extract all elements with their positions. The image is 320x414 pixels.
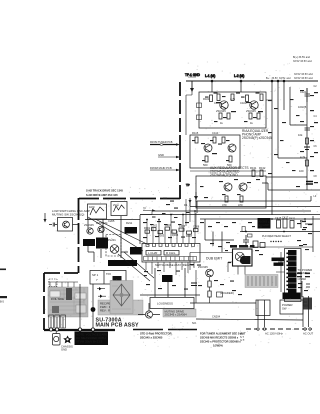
pointer diagonal lower	[118, 252, 154, 281]
svg-text:2SC945 A(TP)GND: 2SC945 A(TP)GND	[210, 173, 238, 177]
svg-text:4.7k: 4.7k	[300, 155, 306, 159]
transistor Q3	[204, 144, 212, 152]
connector CN201 black body	[283, 250, 301, 299]
svg-text:33.5V 33.5V and: 33.5V 33.5V and	[294, 77, 313, 80]
svg-text:DUB EMIT: DUB EMIT	[206, 257, 222, 261]
AC line dashed	[246, 328, 312, 330]
svg-text:CN202: CN202	[298, 277, 307, 281]
svg-text:VTVM 20k/V B+33.5: VTVM 20k/V B+33.5	[76, 340, 103, 344]
svg-text:C110: C110	[212, 131, 219, 135]
wire horizontal y=219 signal line	[85, 219, 140, 221]
wire y=231.5	[240, 231, 320, 233]
wire: boundary vertical x=180	[179, 82, 181, 199]
resistor R21 on rail	[306, 138, 309, 144]
IC1 terminal strip	[144, 257, 197, 261]
small box part X3	[217, 292, 223, 297]
transistor Q1	[220, 101, 228, 109]
resistor R16	[260, 170, 263, 177]
transistor Q8	[87, 228, 93, 234]
wire verticals feeding mid cluster	[88, 215, 140, 258]
svg-text:AC 120V 60Hz: AC 120V 60Hz	[265, 332, 283, 336]
svg-text:2SC945: 2SC945	[84, 223, 94, 227]
resistor R15	[252, 170, 255, 177]
diode D11	[97, 287, 105, 290]
amp stage box (RIAA equalizer first stage)	[199, 92, 266, 128]
svg-text:2SC945: 2SC945	[216, 109, 226, 113]
resistor R62	[248, 234, 253, 237]
svg-text:L CH/R: L CH/R	[148, 251, 157, 255]
diode D1	[194, 192, 198, 202]
resistor R42	[152, 228, 157, 231]
left edge dash mark 1	[0, 269, 6, 271]
value labels right mid (smudges)	[225, 222, 307, 263]
value labels stage2 extra (smudges)	[192, 140, 230, 161]
power switch box	[280, 300, 303, 314]
resistor R9	[257, 113, 260, 119]
PCB foil area G2 with bridge rectifier	[110, 281, 133, 314]
fuse holder F2	[55, 315, 60, 328]
electrolytic capacitor C51 below bus	[53, 332, 61, 346]
junction dots right mid	[245, 218, 306, 232]
value labels mid band (smudges)	[143, 221, 236, 247]
fuse holder F3	[61, 315, 66, 328]
shield can (black) B1	[83, 239, 95, 246]
svg-text:1kHz: 1kHz	[89, 206, 95, 209]
svg-text:C415: C415	[275, 216, 282, 220]
label supply arrows	[266, 77, 291, 80]
label B+ rail note (page top right corner)	[293, 56, 312, 63]
svg-text:R301: R301	[144, 226, 151, 230]
screw symbol icon	[63, 336, 72, 344]
node B2 junction dot	[277, 80, 280, 83]
motor M1 box with circle	[233, 249, 253, 266]
wire DUB box outline	[190, 253, 232, 271]
diode D12	[98, 295, 106, 298]
value labels stage3 extra (smudges)	[200, 179, 260, 198]
box fuse area	[256, 300, 270, 316]
wire: boundary horizontal y=273	[44, 272, 78, 274]
svg-text:R205 10k: R205 10k	[96, 221, 108, 225]
label right rail values	[298, 105, 307, 173]
resistor R13	[205, 156, 208, 162]
value labels right ladder (smudges)	[268, 90, 318, 187]
capacitor C106 on box edge	[197, 115, 202, 120]
resistor R5	[260, 94, 263, 101]
gray label plate G4	[163, 309, 196, 317]
svg-text:R132: R132	[259, 166, 266, 170]
wire long feed y=320	[196, 319, 303, 320]
svg-text:FROM MAIN PCB: FROM MAIN PCB	[150, 166, 172, 170]
junction dots row	[146, 210, 196, 220]
svg-text:R431: R431	[289, 217, 296, 221]
svg-text:1/2W5%: 1/2W5%	[213, 344, 223, 348]
svg-text:2SC458 MIX REJECTS 2SD68: 2SC458 MIX REJECTS 2SD68 x	[200, 336, 239, 340]
svg-text:TP-1 GND: TP-1 GND	[185, 73, 201, 77]
labels right of connector	[298, 268, 313, 281]
svg-text:and: and	[287, 77, 292, 80]
ground bus dashes continuation	[133, 329, 197, 331]
svg-text:MAIN PCB ASSY: MAIN PCB ASSY	[96, 323, 140, 329]
label above motor	[230, 245, 255, 248]
transistor Q2	[250, 101, 258, 109]
nested L wires from right bus into mid section	[186, 199, 196, 228]
node arrow into oscillator	[44, 213, 47, 223]
value labels stage2	[192, 131, 232, 167]
wire rung y=177	[266, 176, 307, 178]
capacitor C55	[191, 283, 197, 286]
bottom left small text column	[240, 333, 245, 342]
svg-text:2Vpp: 2Vpp	[113, 204, 119, 207]
wire: boundary vertical x=44	[43, 273, 45, 330]
dark component DR1	[303, 298, 312, 310]
node B3 junction dot	[283, 80, 286, 83]
svg-text:R115: R115	[192, 131, 199, 135]
waveform scope box W1	[88, 204, 107, 219]
diode D2 with label	[184, 198, 192, 207]
PCB foil area G1 (hatched gray)	[48, 287, 88, 317]
black tab T2	[274, 263, 284, 266]
B+ supply bus wire y=81	[186, 80, 318, 82]
resistor R4	[246, 95, 249, 102]
wire cluster around 210-240, 240-250	[205, 219, 234, 252]
pointer line from W2 to circuit	[88, 217, 143, 251]
transistor Q4	[228, 144, 236, 152]
wire y=190	[262, 183, 320, 190]
wire: boundary vertical x=78.5	[78, 198, 80, 273]
capacitor C64	[242, 227, 245, 232]
value labels stage1 extra (smudges)	[205, 93, 263, 123]
wire y=215	[140, 214, 320, 216]
resistor R51 below Q11	[208, 281, 211, 287]
value labels stage3	[222, 166, 266, 207]
value labels mid cluster top	[84, 219, 133, 227]
amp stage 3 box	[196, 176, 266, 208]
low switching oscillator sub-circuit labels	[52, 209, 90, 217]
wire stage1 to rail	[186, 81, 272, 135]
svg-text:R211: R211	[126, 221, 133, 225]
svg-text:B-5: B-5	[0, 301, 5, 304]
value labels right edge mid extra	[152, 212, 312, 250]
resistor R22 on rail	[306, 160, 309, 166]
black bar B4 (shield cover)	[108, 260, 137, 266]
label under screw	[61, 345, 73, 352]
svg-text:EQ AMP: EQ AMP	[259, 223, 270, 227]
svg-text:C417: C417	[282, 216, 289, 220]
svg-text:100: 100	[299, 169, 304, 173]
wire y=247	[240, 246, 313, 248]
svg-text:CN204: CN204	[212, 315, 221, 319]
black tab T1	[272, 258, 285, 262]
svg-text:2SC945 x 2SA564: 2SC945 x 2SA564	[165, 313, 188, 317]
transistor Q5	[224, 183, 232, 191]
dashed box above G1	[49, 279, 57, 287]
svg-text:FROM TUNER PCB: FROM TUNER PCB	[150, 141, 173, 144]
label right edge pin names	[314, 85, 318, 198]
value labels right mid row	[275, 216, 307, 224]
resistor R45	[172, 230, 177, 233]
value labels connector right (smudges)	[297, 273, 310, 292]
resistor R1	[210, 95, 213, 102]
AC plug pads	[257, 328, 311, 330]
resistor R18	[240, 196, 243, 202]
resistor R11	[213, 137, 216, 143]
muting block M2 (black)	[162, 275, 173, 282]
svg-text:GND: GND	[158, 153, 164, 157]
junction pad node P9	[91, 307, 96, 312]
small box pair y=243	[253, 241, 258, 248]
heavy boundary arrows mid (labels pointing at x=180 line)	[150, 141, 180, 146]
svg-text:100/25: 100/25	[298, 105, 307, 109]
ground bus heavy line y=330 bottom-left	[44, 329, 115, 331]
shield bar B5 (under IC)	[130, 247, 142, 255]
svg-text:R131: R131	[250, 166, 257, 170]
value labels line convergence (smudges)	[163, 198, 178, 209]
dotted trim row	[270, 241, 281, 242]
wire feeds left of connector	[276, 252, 285, 292]
label SU-7300A MAIN PCB ASSY	[96, 318, 140, 329]
wire rung y=125	[290, 124, 307, 126]
IC1 socket strip with pin bumps	[142, 244, 200, 263]
svg-text:SP 1: SP 1	[92, 273, 99, 277]
node L1 junction dot	[211, 80, 214, 83]
svg-text:NO.: NO.	[192, 321, 197, 325]
fuse holder F1	[49, 315, 54, 328]
value labels lower mid (smudges)	[144, 264, 242, 295]
resistor R46	[179, 228, 184, 231]
sub box lower mid	[150, 298, 194, 309]
wire net lower mid	[140, 268, 200, 297]
resistor R43	[158, 231, 163, 234]
label protector note	[140, 332, 172, 340]
wire: drops from bus to cluster1	[212, 81, 284, 215]
wire stubs from motor down	[228, 262, 245, 275]
svg-text:4.7k: 4.7k	[230, 97, 236, 101]
capacitor C62	[283, 219, 287, 228]
bottom-right assembly box	[196, 296, 314, 336]
capacitor C61	[277, 220, 281, 228]
wire top of G1	[48, 282, 78, 287]
capacitor C24 black plates	[306, 182, 313, 185]
wire vertical x=290	[289, 87, 291, 125]
resistor R44	[165, 227, 170, 230]
svg-text:B(+) 33.5V and: B(+) 33.5V and	[293, 56, 310, 59]
shield can (black) B2	[96, 238, 108, 249]
svg-text:TP: TP	[186, 183, 190, 187]
wire: boundary horizontal y=198	[79, 198, 180, 200]
wire y=219 right half	[200, 218, 320, 220]
svg-text:2SC945 x 2SC485: 2SC945 x 2SC485	[140, 336, 163, 340]
svg-text:G.T: G.T	[240, 339, 245, 342]
resistor R61	[290, 221, 294, 229]
wire y=201	[197, 196, 311, 213]
PCB outline heavy dash-dot boundary, top segment	[44, 82, 180, 330]
wire bottom rail y=303	[190, 302, 256, 304]
IC pin wires below	[146, 262, 194, 275]
waveform scope box W2	[111, 202, 127, 216]
black spec label block with white text	[75, 332, 109, 346]
svg-text:S-N2 DRIVE AMP 2SC 945: S-N2 DRIVE AMP 2SC 945	[86, 193, 118, 197]
resistor R10	[195, 137, 198, 143]
label section title (B-NO TRACK DRIVE SECTION)	[86, 189, 123, 197]
gray label plate G5	[98, 300, 143, 315]
capacitor C31	[49, 223, 57, 227]
value labels component row	[144, 223, 200, 238]
connector CN201 outline	[285, 249, 302, 302]
svg-text:TP: TP	[143, 209, 146, 211]
wire y=171 below stage2	[190, 170, 266, 172]
svg-text:TP2: TP2	[106, 272, 111, 276]
resistor R14	[229, 156, 232, 162]
resistor R7	[227, 113, 230, 119]
svg-text:C103: C103	[240, 101, 247, 105]
capacitor C21 on rail	[305, 88, 311, 102]
wire from oscillator to boundary	[73, 224, 79, 226]
wire stubs mid cluster	[88, 246, 128, 262]
wire y=211	[152, 210, 311, 212]
svg-text:AC OUT: AC OUT	[303, 332, 314, 336]
svg-text:R307: R307	[186, 234, 193, 238]
small parts right edge below connector	[302, 281, 310, 297]
resistor R8	[249, 113, 252, 119]
transistor Q10 (protector)	[138, 303, 160, 318]
resistor R2	[217, 94, 220, 101]
capacitor C63	[243, 235, 249, 247]
resistor R52 below Q11	[208, 291, 211, 297]
svg-text:10k: 10k	[298, 133, 303, 137]
svg-text:(LOADED): (LOADED)	[220, 291, 234, 295]
svg-text:2SC945 x PROTECTOR 2SD668: 2SC945 x PROTECTOR 2SD668 x	[200, 340, 241, 344]
svg-text:C308: C308	[193, 225, 200, 229]
capacitor C105 on box edge	[197, 103, 202, 108]
pointer line from W1 to circuit	[95, 219, 149, 245]
svg-text:TRANS: TRANS	[298, 271, 307, 275]
wire rung y=158	[278, 157, 307, 159]
node B1 junction dot	[271, 80, 274, 83]
right ladder rail x=307	[306, 88, 308, 190]
svg-text:33.5V 33.5V and: 33.5V 33.5V and	[293, 60, 312, 63]
pilot lamp PL1 with dashed enclosure	[106, 235, 121, 257]
shield can (black) B3	[125, 227, 138, 234]
svg-text:SW: SW	[282, 307, 287, 311]
svg-text:R CH/L: R CH/L	[166, 251, 176, 255]
capacitor C22 on rail	[305, 128, 311, 130]
label TP3 pointer	[143, 209, 156, 212]
transistor Q7	[63, 221, 70, 228]
transistor Q11	[206, 269, 214, 277]
scan noise speckle	[44, 62, 318, 348]
amp stage 2 box	[190, 135, 240, 168]
small parts right of row	[301, 216, 313, 252]
resistor R48	[194, 229, 199, 232]
resistor R17	[225, 196, 228, 202]
transistor Q9	[98, 226, 104, 232]
label RIAA equalizer	[242, 129, 272, 140]
bottom center text block	[200, 332, 246, 348]
resistor R12	[222, 137, 225, 143]
polarized capacitor C23	[304, 147, 310, 150]
svg-text:C205: C205	[108, 219, 115, 223]
wire verticals power area	[258, 296, 309, 327]
label AUX regulator	[210, 166, 249, 177]
svg-text:GND: GND	[61, 347, 67, 351]
svg-text:MUTING SW 2SC945(Q): MUTING SW 2SC945(Q)	[52, 213, 84, 217]
svg-text:AC: AC	[304, 300, 308, 304]
relay box with meter icons	[90, 271, 126, 285]
wire drops from buses into IC pins	[147, 211, 195, 243]
svg-text:33.5V: 33.5V	[272, 77, 279, 80]
connector pads on ground bus	[49, 328, 94, 331]
transistor Q6	[239, 183, 247, 191]
svg-text:2SC945: 2SC945	[246, 109, 256, 113]
resistor R6	[219, 113, 222, 119]
svg-text:LOUDNESS: LOUDNESS	[157, 302, 173, 306]
svg-text:S-N2 TRACK DRIVE SEC 1345: S-N2 TRACK DRIVE SEC 1345	[86, 189, 123, 193]
svg-text:L-2 (M): L-2 (M)	[234, 74, 244, 78]
svg-text:PLAY/REC HEAD SELECT: PLAY/REC HEAD SELECT	[262, 235, 291, 238]
label voltage table top right	[294, 73, 313, 80]
value labels stage1	[203, 97, 256, 125]
resistor R41	[145, 230, 150, 233]
IC2 black label (AN363)	[258, 218, 271, 229]
svg-text:L-1 (M): L-1 (M)	[205, 74, 215, 78]
resistor R47	[187, 231, 192, 234]
left edge dash mark 2	[0, 296, 7, 298]
node TP1 left end of bus with arrow	[188, 77, 196, 92]
node L2 junction dot	[240, 80, 243, 83]
svg-text:FOIL SIDE: FOIL SIDE	[51, 297, 64, 301]
resistor R3	[231, 94, 234, 101]
wire y=206.5	[190, 206, 320, 208]
ribbon cable G3 (gray striped strip)	[245, 275, 278, 288]
svg-text:560: 560	[203, 163, 208, 167]
oscillator box	[58, 218, 73, 232]
connector pin wires to ground bus	[51, 284, 93, 328]
IC1 inner label boxes	[146, 251, 161, 256]
wire Q11 collector chain	[196, 270, 210, 303]
